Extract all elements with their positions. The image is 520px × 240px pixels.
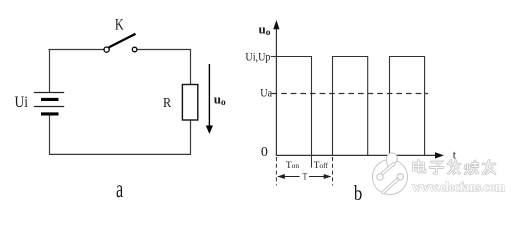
T dimension right arrow (309, 176, 331, 178)
dashed level line Ua (272, 93, 428, 95)
output arrow uo head (206, 126, 213, 135)
svg-text:Ui,Up: Ui,Up (245, 49, 270, 63)
svg-text:K: K (115, 17, 124, 34)
svg-text:Ui: Ui (15, 94, 29, 111)
pulse 2 waveform (333, 57, 368, 156)
battery Ui plate short thick 1 (41, 98, 59, 101)
wire top left segment (48, 49, 104, 51)
switch K contact circle left (104, 47, 109, 52)
switch K blade (109, 34, 136, 48)
T dimension left arrow (278, 176, 300, 178)
resistor R body (182, 85, 197, 121)
dashed extension at period start (275, 157, 277, 186)
svg-text:Ton: Ton (286, 161, 299, 171)
pulse 1 waveform (276, 57, 311, 156)
wire right vertical upper (R top lead) (190, 50, 192, 85)
pulse 3 waveform (390, 57, 425, 156)
wire right vertical lower (R bottom lead) (190, 120, 192, 154)
svg-text:R: R (163, 96, 172, 111)
svg-text:Ua: Ua (260, 88, 272, 100)
y-axis uo (275, 24, 277, 155)
wire left vertical lower (Ui bottom lead) (49, 114, 51, 155)
dashed extension at period end (332, 157, 334, 186)
y-axis arrowhead (273, 20, 279, 29)
svg-text:Toff: Toff (314, 161, 329, 171)
svg-text:uo: uo (214, 92, 226, 109)
wire bottom (49, 153, 191, 155)
x-axis t (276, 154, 437, 156)
battery Ui plate short thick 2 (41, 112, 59, 115)
svg-text:T: T (303, 173, 308, 183)
wire top right segment (137, 49, 191, 51)
svg-text:b: b (354, 181, 362, 203)
switch K contact circle right (132, 47, 137, 52)
svg-text:0: 0 (261, 144, 268, 159)
wire left vertical upper (Ui top lead) (49, 50, 51, 93)
watermark logo circle (373, 153, 408, 195)
battery Ui plate long thin 1 (34, 92, 64, 94)
svg-text:www.elecfans.com: www.elecfans.com (412, 179, 505, 194)
tick Ui,Up level (271, 56, 277, 58)
x-axis arrowhead (435, 152, 444, 158)
divider line Ton/Toff below axis (311, 155, 313, 167)
svg-text:a: a (116, 176, 123, 203)
svg-text:uo: uo (259, 22, 271, 39)
battery Ui plate long thin 2 (34, 106, 64, 108)
output arrow uo shaft (208, 64, 210, 127)
